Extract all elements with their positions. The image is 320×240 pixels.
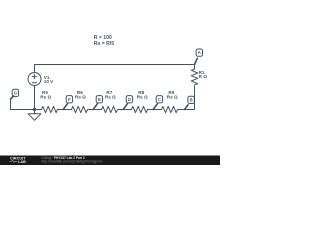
- R1 value label: [199, 74, 208, 79]
- node G flag: [11, 89, 19, 99]
- junction dot at V1/ground node: [33, 108, 36, 111]
- voltage source V1: [28, 73, 41, 86]
- footer title text: [42, 156, 85, 160]
- R5 name label: [42, 90, 48, 95]
- node A letter: [198, 50, 201, 55]
- V1 name label: [44, 75, 50, 80]
- svg-text:E: E: [98, 97, 101, 102]
- annotation text R = 100: [94, 35, 112, 41]
- node C letter: [158, 97, 161, 102]
- wire top rail from V1 to R1: [35, 64, 195, 66]
- node F letter: [68, 97, 71, 102]
- node G letter: [14, 91, 17, 96]
- svg-text:Rs Ω: Rs Ω: [137, 95, 148, 100]
- resistor R6: [65, 106, 95, 112]
- svg-text:Rs Ω: Rs Ω: [105, 95, 116, 100]
- svg-text:R Ω: R Ω: [199, 74, 208, 79]
- svg-text:Rs = R/5: Rs = R/5: [94, 41, 114, 47]
- svg-text:LAB: LAB: [18, 160, 26, 164]
- svg-text:G: G: [14, 91, 17, 96]
- svg-text:C: C: [158, 97, 161, 102]
- node E flag: [93, 96, 102, 110]
- V1 value label 10 V: [44, 79, 54, 84]
- resistor R8: [125, 106, 155, 112]
- footer watermark bar: [0, 156, 220, 166]
- node B flag: [185, 96, 195, 109]
- svg-text:B: B: [190, 97, 193, 102]
- node A flag: [195, 49, 203, 65]
- wire V1 top lead: [34, 65, 36, 73]
- footer CircuitLab logo: [10, 156, 27, 163]
- R6 value label: [75, 95, 86, 100]
- R6 name label: [77, 90, 83, 95]
- svg-text:D: D: [128, 97, 131, 102]
- svg-text:Rs Ω: Rs Ω: [167, 95, 178, 100]
- node F flag: [63, 96, 72, 110]
- R8 name label: [138, 90, 144, 95]
- resistor R7: [95, 106, 125, 112]
- node D flag: [123, 96, 132, 110]
- wire V1 bottom lead to ground junction: [34, 86, 36, 110]
- svg-text:10 V: 10 V: [44, 79, 54, 84]
- node C flag: [153, 96, 162, 110]
- R9 name label: [168, 90, 174, 95]
- R5 value label: [40, 95, 51, 100]
- svg-text:F: F: [68, 97, 71, 102]
- node E letter: [98, 97, 101, 102]
- svg-text:http://circuitlab.com/c/g7u6dq: http://circuitlab.com/c/g7u6dqg/7uhdqgx7…: [42, 160, 104, 164]
- node B letter: [190, 97, 193, 102]
- ground symbol: [28, 110, 41, 121]
- R7 value label: [105, 95, 116, 100]
- node D letter: [128, 97, 131, 102]
- R7 name label: [106, 90, 112, 95]
- wire from node G to ground junction: [11, 99, 35, 110]
- resistor R9: [155, 106, 185, 112]
- annotation text Rs = R/5: [94, 41, 114, 47]
- footer url text: [42, 160, 104, 164]
- svg-text:A: A: [198, 50, 201, 55]
- resistor R5: [35, 106, 65, 112]
- svg-text:Rs Ω: Rs Ω: [75, 95, 86, 100]
- wire from R9 right terminal to R1 bottom: [185, 86, 195, 110]
- svg-text:Rs Ω: Rs Ω: [40, 95, 51, 100]
- R8 value label: [137, 95, 148, 100]
- R1 name label: [199, 70, 205, 75]
- resistor R1: [191, 65, 197, 86]
- R9 value label: [167, 95, 178, 100]
